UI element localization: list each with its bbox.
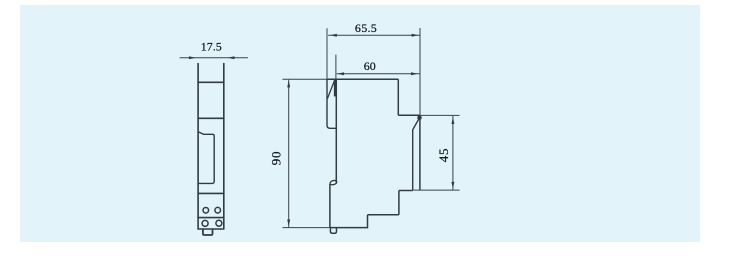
bottom tab	[203, 229, 213, 235]
bottom step riser 1	[367, 215, 369, 229]
body bottom edge	[197, 228, 224, 230]
bottom step tread 2	[399, 190, 413, 192]
svg-text:60: 60	[364, 59, 376, 73]
front flap extension line up to 65.5 dim	[326, 28, 328, 79]
svg-text:90: 90	[269, 151, 284, 166]
rail clip pivot dot	[417, 116, 421, 120]
inner panel outline	[198, 132, 214, 184]
horizontal divider 2	[197, 117, 224, 119]
body face extension line up to 60 dim	[335, 55, 337, 80]
rail clip outer edge	[419, 115, 421, 190]
top surface line	[327, 78, 398, 80]
dimension 90 arrowheads	[287, 81, 290, 88]
terminal hole row2 right	[216, 220, 222, 226]
cover grip curl	[329, 180, 337, 186]
body left edge	[197, 63, 199, 229]
dimension 17.5 arrowheads	[189, 56, 196, 59]
svg-text:17.5: 17.5	[201, 39, 222, 53]
top extension line to 90 dim	[282, 78, 330, 80]
front flap edge	[327, 79, 336, 128]
bottom foot	[330, 228, 336, 233]
terminal hole row2 left	[202, 220, 208, 226]
bottom edge	[330, 227, 368, 229]
dimension 60 line	[337, 73, 420, 75]
top step tread	[398, 114, 420, 116]
dimension 65.5 arrowheads	[330, 34, 337, 37]
flap wedge slant	[327, 80, 334, 99]
lower front face	[329, 184, 331, 228]
back extension line up to dims	[419, 28, 421, 115]
svg-text:65.5: 65.5	[355, 21, 377, 35]
dimension 45 arrowheads	[451, 117, 454, 124]
body front face	[335, 79, 337, 183]
dimension 17.5 line	[180, 57, 248, 59]
dimension 45 line	[452, 116, 454, 190]
svg-text:45: 45	[436, 148, 451, 163]
flap wedge right edge	[334, 80, 336, 97]
dimension 60 arrowheads	[337, 72, 344, 75]
horizontal divider 3	[197, 192, 224, 194]
bottom extension line to 90 dim	[282, 227, 330, 229]
horizontal divider 4	[197, 217, 224, 219]
bottom step tread 1	[368, 214, 399, 216]
horizontal divider 1	[197, 81, 224, 83]
dimension 65.5 line	[328, 34, 419, 36]
rail clip inner edge	[413, 119, 419, 190]
45 dim bottom extension line	[413, 189, 460, 191]
dimension 90 line	[288, 80, 290, 228]
bottom step riser 2	[398, 191, 400, 215]
top step riser	[397, 79, 399, 115]
body right edge	[223, 63, 225, 229]
45 dim top extension line	[420, 114, 459, 116]
terminal hole row1 left	[203, 208, 209, 214]
terminal hole row1 right	[215, 207, 221, 213]
